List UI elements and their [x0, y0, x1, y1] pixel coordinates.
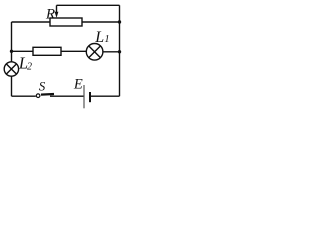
- svg-text:S: S: [39, 78, 46, 93]
- wire bottom right segment (battery to corner): [91, 95, 120, 97]
- rheostat R slider arrow: [56, 5, 58, 12]
- svg-text:E: E: [73, 77, 83, 93]
- rheostat R body: [50, 18, 82, 26]
- node junction right bus / lamp wire: [118, 50, 121, 53]
- wire middle row left (bus to resistor): [12, 50, 34, 52]
- switch S lever: [41, 93, 54, 96]
- svg-text:R: R: [45, 6, 55, 22]
- battery E short plate: [89, 92, 91, 102]
- wire lamp L1 to right bus: [103, 51, 120, 53]
- node junction left bus / middle wire: [10, 50, 13, 53]
- lamp L1: [86, 44, 103, 61]
- wire top horizontal: [57, 4, 120, 6]
- resistor (unlabeled, middle row): [33, 47, 61, 55]
- switch S contact circle: [36, 94, 40, 98]
- svg-text:1: 1: [104, 34, 109, 45]
- wire left vertical lower: [11, 76, 13, 96]
- wire middle row (resistor to lamp L1): [61, 50, 86, 52]
- wire second row right (rheostat to right bus): [82, 21, 120, 23]
- wire second row left (to rheostat): [12, 21, 51, 23]
- svg-text:2: 2: [27, 62, 32, 73]
- svg-text:L: L: [94, 29, 104, 46]
- lamp L2: [4, 62, 18, 76]
- wire bottom left segment: [12, 95, 36, 97]
- wire right vertical: [119, 5, 121, 96]
- wire left vertical upper: [11, 22, 13, 62]
- node junction right bus / rheostat wire: [118, 20, 121, 23]
- battery E long plate: [83, 85, 85, 108]
- wire bottom middle segment (switch to battery): [50, 95, 84, 97]
